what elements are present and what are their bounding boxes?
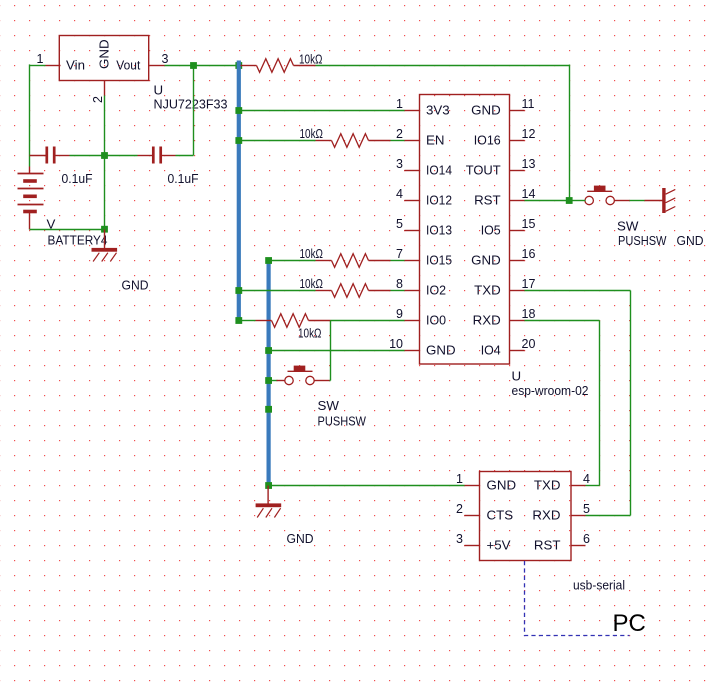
esp pin name RXD right — [473, 313, 501, 328]
wire GND net vertical (reg pin2 down to battery node) — [104, 96, 106, 230]
svg-text:10kΩ: 10kΩ — [300, 246, 324, 261]
esp pin 9 number — [396, 307, 403, 321]
junction second bus bottom ground node — [265, 482, 272, 489]
ground label GND at bus bottom — [287, 531, 314, 546]
svg-text:PC: PC — [613, 610, 646, 637]
wire bus to R2 — [240, 140, 316, 142]
resistor R5 value 10kOhm — [298, 326, 322, 341]
svg-text:EN: EN — [426, 133, 444, 148]
IC usb-serial body — [480, 472, 572, 561]
svg-text:2: 2 — [396, 127, 403, 141]
wire second bus to esp pin10 GND — [270, 350, 405, 352]
esp pin 5 stub (IO13) — [405, 230, 420, 232]
svg-text:IO15: IO15 — [426, 253, 452, 268]
svg-text:10kΩ: 10kΩ — [300, 126, 324, 141]
svg-text:4: 4 — [396, 187, 403, 201]
ground symbol GND at battery — [92, 230, 118, 262]
svg-text:BATTERY4: BATTERY4 — [48, 233, 108, 248]
esp pin name IO0 — [426, 313, 446, 328]
regulator text GND (rotated) — [97, 39, 112, 69]
ground label GND at battery — [122, 278, 149, 293]
svg-text:3: 3 — [162, 52, 169, 66]
svg-text:GND: GND — [471, 253, 501, 268]
junction node Vout at cap2 branch — [190, 62, 197, 69]
junction second bus at pin10 row — [265, 347, 272, 354]
svg-text:2: 2 — [91, 96, 105, 103]
usb-serial value label — [573, 578, 625, 593]
ground symbol GND rotated at SW2 — [645, 188, 676, 213]
esp pin 4 number — [396, 187, 403, 201]
svg-text:IO4: IO4 — [481, 343, 501, 358]
battery value BATTERY4 — [48, 233, 108, 248]
junction bus at pin1 row — [235, 107, 242, 114]
usb pin 2 stub (CTS) — [465, 515, 480, 517]
esp pin 12 stub (IO16) — [510, 140, 525, 142]
resistor R4 value 10kOhm — [300, 276, 324, 291]
esp pin 10 stub (GND) — [405, 350, 420, 352]
wire RST junction to SW2 — [570, 200, 586, 202]
regulator pin 2 stub — [104, 81, 106, 96]
wire C2 to Vout junction — [176, 66, 194, 156]
usb pin 1 stub (GND) — [465, 485, 480, 487]
regulator pin 2 number (rotated) — [91, 96, 105, 103]
esp pin 15 number — [522, 217, 536, 231]
svg-text:12: 12 — [522, 127, 536, 141]
svg-text:RXD: RXD — [473, 313, 501, 328]
svg-text:GND: GND — [122, 278, 149, 293]
usb pin 3 stub (+5V) — [465, 545, 480, 547]
svg-text:3: 3 — [456, 532, 463, 546]
esp pin name IO13 — [426, 223, 452, 238]
capacitor C1 0.1uF — [30, 147, 70, 164]
regulator pin 1 number — [37, 52, 44, 66]
esp pin 16 stub (GND) — [510, 260, 525, 262]
battery name V — [47, 217, 56, 232]
wire C1 to GND net node — [70, 155, 106, 157]
esp pin 18 stub (RXD) — [510, 320, 525, 322]
esp pin 7 stub (IO15) — [405, 260, 420, 262]
svg-text:IO12: IO12 — [426, 193, 452, 208]
resistor R3 10k on IO15 — [316, 254, 391, 268]
regulator pin 3 number — [162, 52, 169, 66]
svg-text:IO14: IO14 — [426, 163, 452, 178]
esp pin 20 stub (IO4) — [510, 350, 525, 352]
esp pin 13 number — [522, 157, 536, 171]
esp pin name 3V3 — [426, 103, 450, 118]
esp pin name RST right — [474, 193, 501, 208]
svg-text:3: 3 — [396, 157, 403, 171]
svg-text:5: 5 — [396, 217, 403, 231]
svg-text:9: 9 — [396, 307, 403, 321]
svg-text:TOUT: TOUT — [466, 163, 501, 178]
svg-text:U: U — [154, 83, 164, 98]
svg-text:IO5: IO5 — [481, 223, 501, 238]
svg-text:4: 4 — [583, 472, 590, 486]
esp pin 2 number — [396, 127, 403, 141]
junction bus at pin8 row — [235, 287, 242, 294]
esp pin 20 number — [522, 337, 536, 351]
switch SW1 value PUSHSW — [318, 414, 367, 429]
svg-text:GND: GND — [97, 39, 112, 69]
usb pin name RXD right — [532, 508, 560, 523]
svg-text:IO0: IO0 — [426, 313, 446, 328]
label PC — [613, 610, 646, 637]
esp pin 3 stub (IO14) — [405, 170, 420, 172]
junction bus at EN row — [235, 137, 242, 144]
svg-text:0.1uF: 0.1uF — [62, 171, 93, 186]
svg-text:18: 18 — [522, 307, 536, 321]
regulator text Vout — [116, 58, 140, 73]
ground label GND at SW2 — [677, 233, 704, 248]
dashed connection usb-serial to PC — [525, 561, 630, 636]
svg-text:PUSHSW: PUSHSW — [318, 414, 367, 429]
bus vertical second — [267, 259, 271, 484]
wire regulator pin1 to battery — [30, 64, 46, 166]
esp pin 12 number — [522, 127, 536, 141]
svg-text:2: 2 — [456, 502, 463, 516]
wire R4 to esp pin8 IO2 — [391, 290, 405, 292]
svg-text:1: 1 — [37, 52, 44, 66]
esp pin 7 number — [396, 247, 403, 261]
wire esp pin14 RST to junction — [525, 200, 570, 202]
wire R1 to RST net (top right corner) — [316, 65, 570, 201]
svg-text:esp-wroom-02: esp-wroom-02 — [512, 383, 589, 398]
svg-text:20: 20 — [522, 337, 536, 351]
switch SW2 PUSHSW (reset) — [585, 186, 630, 205]
battery V BATTERY4 symbol — [18, 167, 44, 230]
switch SW1 PUSHSW — [277, 366, 330, 385]
svg-text:10kΩ: 10kΩ — [300, 276, 324, 291]
esp value esp-wroom-02 — [512, 383, 589, 398]
resistor R2 10k on EN — [316, 134, 391, 148]
junction RST node — [566, 197, 573, 204]
svg-text:IO13: IO13 — [426, 223, 452, 238]
svg-text:1: 1 — [456, 472, 463, 486]
svg-text:usb-serial: usb-serial — [573, 578, 625, 593]
usb pin name RST right — [534, 538, 561, 553]
wire bus to R4 — [240, 290, 316, 292]
svg-text:15: 15 — [522, 217, 536, 231]
svg-text:IO2: IO2 — [426, 283, 446, 298]
esp pin 3 number — [396, 157, 403, 171]
junction second bus at SW1 row — [265, 377, 272, 384]
usb pin 1 number — [456, 472, 463, 486]
capacitor C1 value 0.1uF — [62, 171, 93, 186]
switch SW2 value PUSHSW — [618, 233, 667, 248]
svg-text:NJU7223F33: NJU7223F33 — [154, 97, 228, 112]
esp pin 15 stub (IO5) — [510, 230, 525, 232]
esp pin name IO12 — [426, 193, 452, 208]
esp pin 4 stub (IO12) — [405, 200, 420, 202]
voltage regulator U NJU7223F33 body — [59, 36, 148, 81]
esp pin 9 stub (IO0) — [405, 320, 420, 322]
esp pin 11 stub (GND) — [510, 110, 525, 112]
regulator pin 1 stub — [46, 65, 61, 67]
esp pin 8 number — [396, 277, 403, 291]
svg-text:16: 16 — [522, 247, 536, 261]
usb pin 2 number — [456, 502, 463, 516]
wire battery bottom to ground node — [30, 229, 106, 231]
svg-text:RXD: RXD — [532, 508, 560, 523]
esp refdes U — [512, 369, 522, 384]
esp pin 11 number — [522, 97, 535, 111]
wire esp TXD pin17 to usb RXD — [525, 291, 631, 516]
svg-text:GND: GND — [471, 103, 501, 118]
IC U esp-wroom-02 body — [420, 95, 510, 365]
junction second bus top at pin7 row — [265, 257, 272, 264]
esp pin 8 stub (IO2) — [405, 290, 420, 292]
esp pin 2 stub (EN) — [405, 140, 420, 142]
regulator pin 3 stub — [150, 65, 165, 67]
wire Vout pin3 to bus — [165, 65, 240, 67]
esp pin name EN — [426, 133, 444, 148]
svg-text:CTS: CTS — [487, 508, 514, 523]
svg-text:PUSHSW: PUSHSW — [618, 233, 667, 248]
wire IO0 down to switch SW1 — [330, 321, 332, 381]
svg-text:+5V: +5V — [487, 538, 511, 553]
junction battery ground node — [101, 226, 108, 233]
switch SW1 name SW — [318, 398, 340, 413]
usb pin name TXD right — [534, 478, 561, 493]
junction bus bottom at pin9 row — [235, 317, 242, 324]
svg-text:IO16: IO16 — [474, 133, 501, 148]
regulator refdes U — [154, 83, 164, 98]
usb pin 3 number — [456, 532, 463, 546]
svg-text:10: 10 — [389, 337, 403, 351]
resistor R2 value 10kOhm — [300, 126, 324, 141]
svg-text:GND: GND — [487, 478, 517, 493]
wire esp RXD pin18 to usb TXD — [525, 321, 600, 486]
svg-text:14: 14 — [522, 187, 536, 201]
usb pin name GND — [487, 478, 517, 493]
resistor R5 10k on IO0 — [256, 314, 331, 328]
svg-text:8: 8 — [396, 277, 403, 291]
junction bus top at 3V3 wire — [235, 62, 242, 69]
svg-text:10kΩ: 10kΩ — [298, 326, 322, 341]
esp pin name GND — [426, 343, 456, 358]
svg-text:5: 5 — [583, 502, 590, 516]
usb pin 4 number — [583, 472, 590, 486]
esp pin name IO15 — [426, 253, 452, 268]
svg-text:TXD: TXD — [534, 478, 561, 493]
wire SW2 to GND symbol — [630, 200, 645, 202]
svg-text:6: 6 — [583, 532, 590, 546]
ground symbol GND at bus bottom — [256, 486, 282, 518]
esp pin 18 number — [522, 307, 536, 321]
svg-text:Vin: Vin — [66, 58, 85, 73]
esp pin 5 number — [396, 217, 403, 231]
svg-text:GND: GND — [677, 233, 704, 248]
esp pin name IO14 — [426, 163, 452, 178]
esp pin name IO16 right — [474, 133, 501, 148]
svg-text:3V3: 3V3 — [426, 103, 450, 118]
esp pin 1 stub (3V3) — [405, 110, 420, 112]
esp pin name IO5 right — [481, 223, 501, 238]
usb pin 5 number — [583, 502, 590, 516]
usb pin 5 stub (RXD) — [571, 515, 586, 517]
svg-text:GND: GND — [426, 343, 456, 358]
wire ground node to usb-serial GND pin1 — [270, 485, 465, 487]
wire second bus to R3 — [270, 260, 316, 262]
svg-text:GND: GND — [287, 531, 314, 546]
usb pin 4 stub (TXD) — [571, 485, 586, 487]
svg-text:RST: RST — [474, 193, 501, 208]
svg-text:7: 7 — [396, 247, 403, 261]
esp pin name IO4 right — [481, 343, 501, 358]
wire R2 to esp pin2 EN — [391, 140, 405, 142]
svg-text:Vout: Vout — [116, 58, 140, 73]
capacitor C2 value 0.1uF — [168, 171, 199, 186]
esp pin 14 stub (RST) — [510, 200, 525, 202]
usb pin name CTS — [487, 508, 514, 523]
svg-text:1: 1 — [396, 97, 403, 111]
esp pin 10 number — [389, 337, 403, 351]
wire R3 to esp pin7 IO15 — [391, 260, 405, 262]
svg-text:17: 17 — [522, 277, 536, 291]
usb pin 6 number — [583, 532, 590, 546]
esp pin 16 number — [522, 247, 536, 261]
svg-text:RST: RST — [534, 538, 561, 553]
junction capacitors GND node — [101, 152, 108, 159]
svg-text:10kΩ: 10kΩ — [299, 52, 323, 67]
wire bus to esp pin1 3V3 — [240, 110, 405, 112]
bus vertical main — [237, 61, 241, 323]
usb pin name +5V — [487, 538, 511, 553]
svg-text:11: 11 — [522, 97, 535, 111]
esp pin name GND right — [471, 253, 501, 268]
usb pin 6 stub (RST) — [571, 545, 586, 547]
wire SW1 to IO0 net — [330, 380, 331, 382]
resistor R4 10k on IO2 — [316, 284, 391, 298]
esp pin 17 number — [522, 277, 536, 291]
svg-text:13: 13 — [522, 157, 536, 171]
wire second bus to SW1 — [270, 380, 278, 382]
esp pin 13 stub (TOUT) — [510, 170, 525, 172]
regulator value NJU7223F33 — [154, 97, 228, 112]
esp pin name GND right — [471, 103, 501, 118]
regulator text Vin — [66, 58, 85, 73]
resistor R1 10k on 3V3 to RST — [241, 59, 316, 73]
resistor R3 value 10kOhm — [300, 246, 324, 261]
esp pin name IO2 — [426, 283, 446, 298]
resistor R1 value 10kOhm — [299, 52, 323, 67]
svg-text:SW: SW — [617, 219, 639, 234]
capacitor C2 0.1uF with leads — [105, 147, 176, 164]
esp pin 1 number — [396, 97, 403, 111]
switch SW2 name SW — [617, 219, 639, 234]
wire bus to R5 — [240, 320, 256, 322]
svg-text:SW: SW — [318, 398, 340, 413]
wire R5 to esp pin9 IO0 — [331, 320, 405, 322]
esp pin 14 number — [522, 187, 536, 201]
esp pin 17 stub (TXD) — [510, 290, 525, 292]
esp pin name TXD right — [474, 283, 501, 298]
svg-text:TXD: TXD — [474, 283, 501, 298]
esp pin name TOUT right — [466, 163, 501, 178]
junction second bus spare — [265, 406, 272, 413]
svg-text:0.1uF: 0.1uF — [168, 171, 199, 186]
svg-text:U: U — [512, 369, 522, 384]
